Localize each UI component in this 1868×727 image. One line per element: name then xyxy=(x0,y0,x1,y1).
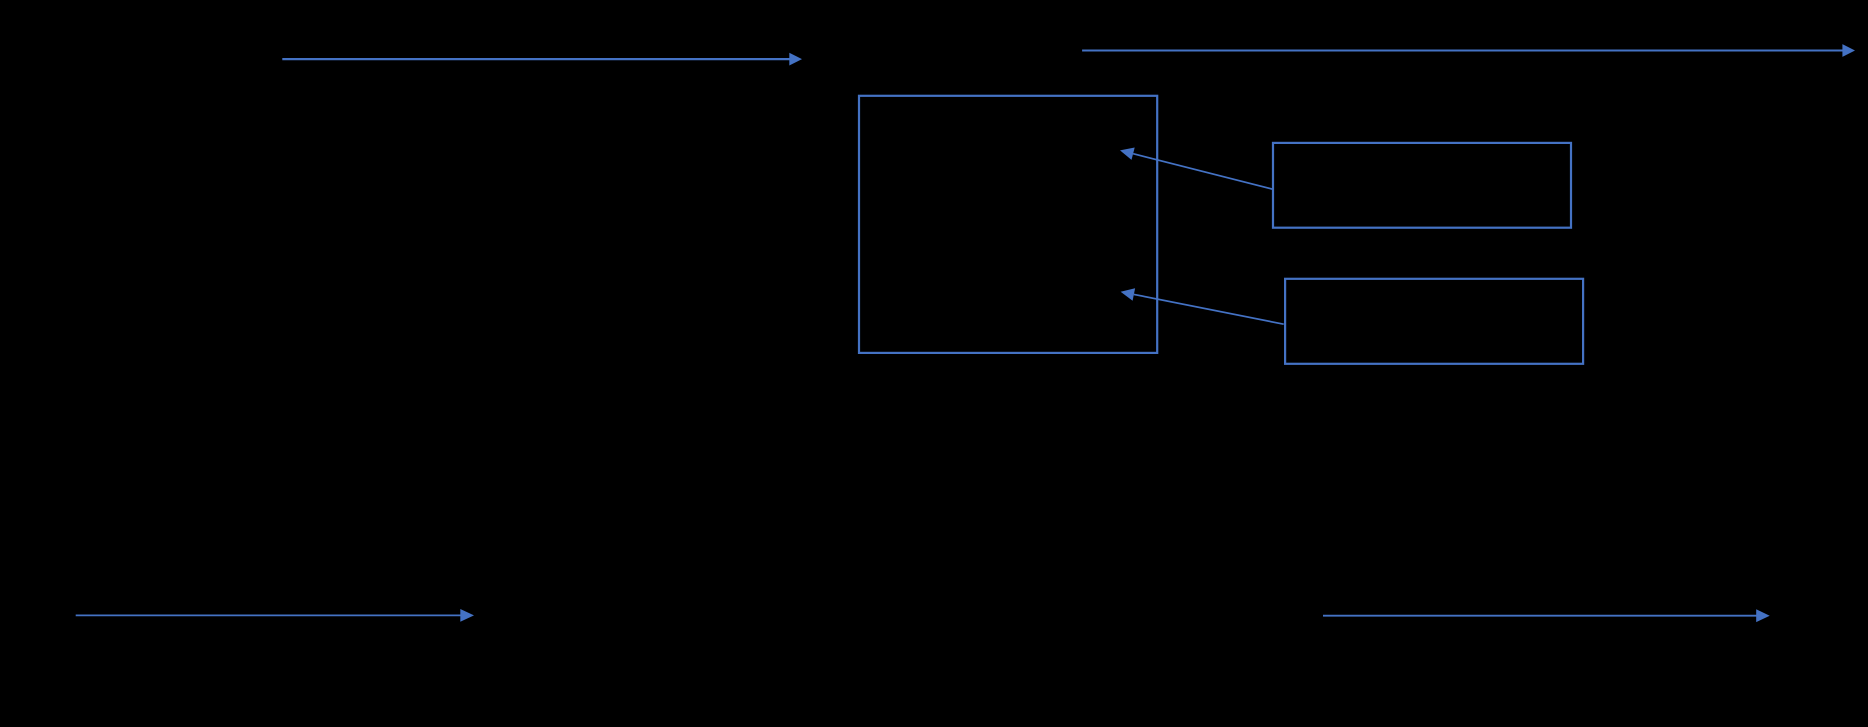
arrow bottom-left xyxy=(76,609,474,622)
arrow from callout 2 to square xyxy=(1121,288,1284,324)
box callout 2 (lower right) xyxy=(1285,279,1583,364)
box callout 1 (upper right) xyxy=(1273,143,1571,228)
arrow bottom-right xyxy=(1323,609,1770,622)
box central square xyxy=(859,96,1157,353)
arrow top-right xyxy=(1082,44,1855,57)
arrow top-left xyxy=(282,53,802,66)
arrow from callout 1 to square xyxy=(1120,148,1273,190)
